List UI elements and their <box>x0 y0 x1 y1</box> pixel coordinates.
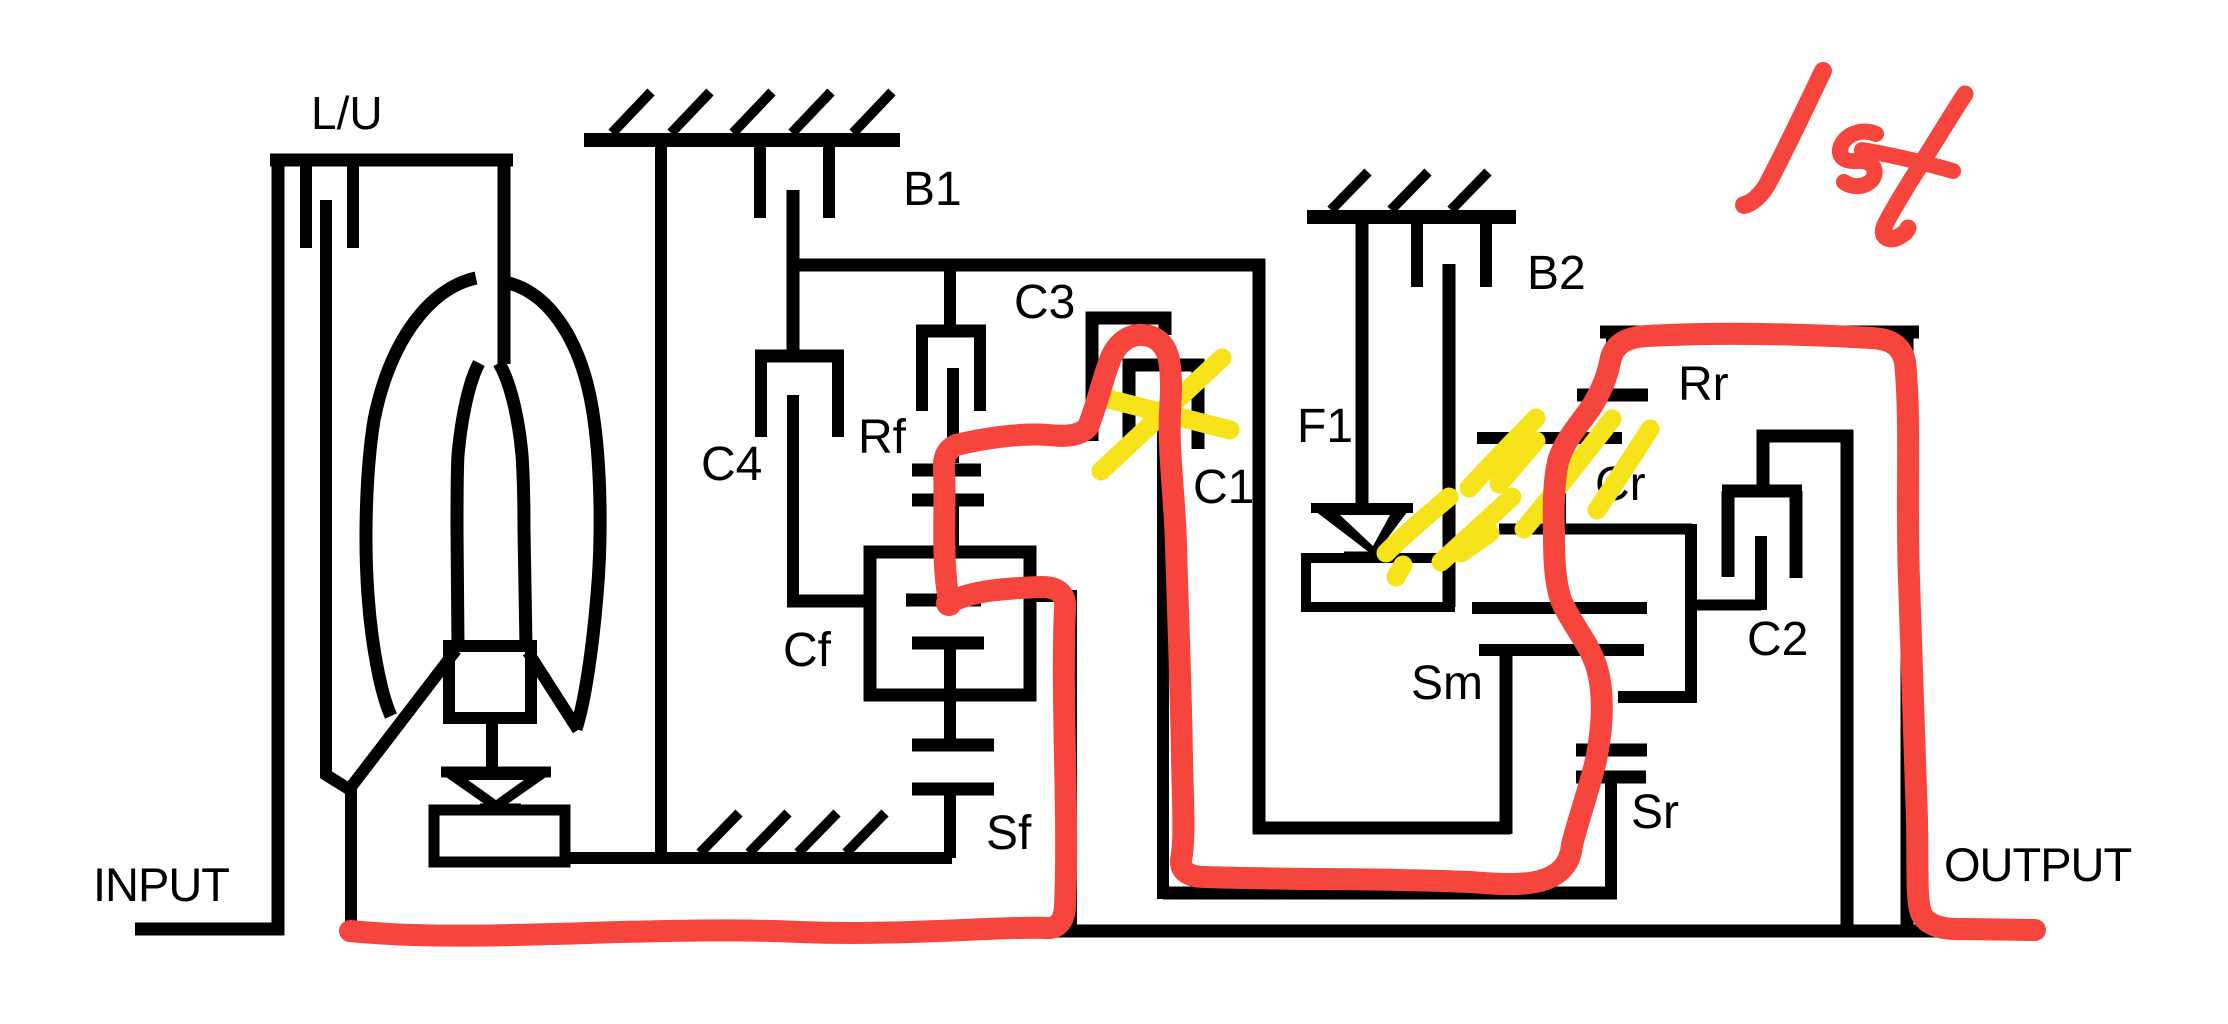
wire mid line to Sr <box>1163 887 1617 900</box>
node L/U label <box>311 87 383 139</box>
clutch L/U lock-up clutch <box>270 154 513 935</box>
wire Cr stub <box>1554 481 1566 534</box>
wire feed to C3 <box>944 265 956 331</box>
svg-text:OUTPUT: OUTPUT <box>1944 838 2132 891</box>
svg-text:C3: C3 <box>1014 276 1075 329</box>
wire C1 member down to rear sun <box>1157 402 1169 899</box>
svg-text:C1: C1 <box>1193 461 1254 514</box>
node Sf plates (front sun gear) <box>912 745 994 789</box>
node Sm plate <box>1479 644 1644 656</box>
yellow hatch marks over F1-Cr area <box>1386 418 1650 577</box>
wire shell right flare <box>528 652 578 730</box>
svg-text:Rf: Rf <box>858 411 907 464</box>
wire Rf to Cf box <box>947 500 959 558</box>
torque converter outer shell left arc <box>366 278 476 716</box>
wire pump shell left flare <box>351 650 456 787</box>
node C2 label <box>1747 613 1808 666</box>
wire Sf to ground line <box>944 789 956 858</box>
carrier Cf box <box>870 552 1030 695</box>
brake B1 rotating plate vertical <box>787 190 800 362</box>
wire Sm box bottom <box>1253 822 1510 835</box>
node Sr plates (rear sun gear) <box>1576 750 1647 777</box>
node Cf label <box>783 624 832 677</box>
torque converter turbine inner left arc <box>457 363 479 646</box>
brake B1 ground hatching <box>612 92 892 133</box>
svg-text:Sr: Sr <box>1631 786 1679 839</box>
wire Rr box right vertical to output <box>1901 332 1914 937</box>
svg-text:L/U: L/U <box>311 87 383 139</box>
svg-text:B2: B2 <box>1527 247 1586 300</box>
clutch C4 <box>755 356 844 607</box>
wire C2 inner stub <box>1755 536 1767 610</box>
ground hatching bottom center <box>700 813 885 853</box>
red path start blob in Cf <box>936 590 962 616</box>
svg-text:Rr: Rr <box>1678 358 1729 411</box>
brake B2 ground hatching <box>1331 172 1488 210</box>
wire junction line to C3 and planetary <box>787 259 1265 272</box>
wire C2 link to Cr drum <box>1691 600 1761 611</box>
svg-text:C4: C4 <box>701 438 762 491</box>
torque converter outer shell right arc <box>509 283 600 729</box>
red power-flow path bottom (input line to Cf) <box>350 334 2035 936</box>
brake B2 plate stub right <box>1480 217 1492 287</box>
node Rf label <box>858 411 907 464</box>
node Cr label <box>1595 458 1646 511</box>
clutch C2 outer bracket <box>1763 436 1853 491</box>
node OUTPUT label <box>1944 838 2132 891</box>
wire input shaft into converter <box>498 154 511 364</box>
one-way clutch F1 triangle <box>1311 508 1413 556</box>
node carrier plate (rear) <box>1472 602 1647 614</box>
brake B1 ground line <box>584 133 900 147</box>
clutch C2 inner bracket <box>1722 491 1802 578</box>
svg-text:Sf: Sf <box>986 807 1032 860</box>
node Rf plates (front ring gear) <box>912 470 984 500</box>
node Sf label <box>986 807 1032 860</box>
node C4 label <box>701 438 762 491</box>
one-way clutch (stator) triangle <box>441 772 551 812</box>
wire Rr box top <box>1600 326 1919 339</box>
wire Cf output link right <box>1024 590 1077 602</box>
svg-text:F1: F1 <box>1297 400 1353 453</box>
wire Cf to Sf <box>944 643 956 745</box>
carrier Cf inner plates <box>906 600 984 643</box>
red power-flow path main (Cf up, across C3, down C1, to Sr, up Cr, across Rr, down to OUTPUT) <box>944 334 2035 930</box>
clutch C3 <box>916 331 986 463</box>
wire turbine member vertical with jog <box>323 200 352 936</box>
wire Cr drum bracket <box>1499 524 1692 535</box>
node Sr label <box>1631 786 1679 839</box>
brake B2 plate stub left <box>1411 217 1423 287</box>
wire Sm box right vertical <box>1500 650 1513 834</box>
wire bottom output line <box>568 925 1937 938</box>
clutch C1 inner bracket <box>1129 365 1198 449</box>
node Rr label <box>1678 358 1729 411</box>
node C3 label <box>1014 276 1075 329</box>
node F1 label <box>1297 400 1353 453</box>
wire right feed vertical down to Sm box <box>1253 259 1266 834</box>
wire case left vertical from B1 line to bottom ground <box>655 140 667 858</box>
one-way clutch F1 base rectangle <box>1306 558 1450 607</box>
svg-text:INPUT: INPUT <box>93 858 229 911</box>
ground line bottom center <box>560 852 952 864</box>
svg-text:B1: B1 <box>903 163 962 216</box>
node INPUT label <box>93 858 229 911</box>
torque converter hub rectangle <box>449 646 531 718</box>
node Sm label <box>1411 657 1483 710</box>
svg-text:C2: C2 <box>1747 613 1808 666</box>
node B2 label <box>1527 247 1586 300</box>
red annotation 1st handwriting <box>1744 71 1965 239</box>
wire Rr box top-left stub <box>1606 332 1618 355</box>
svg-text:Sm: Sm <box>1411 657 1483 710</box>
node B1 label <box>903 163 962 216</box>
node Rr plate bar <box>1577 389 1648 402</box>
brake B1 plate stub right <box>823 140 835 218</box>
ground base rectangle under stator <box>434 810 565 862</box>
svg-text:Cf: Cf <box>783 624 832 677</box>
torque converter turbine inner right arc <box>499 363 526 646</box>
node Cr plate bar <box>1477 432 1622 444</box>
brake B2 ground line <box>1307 210 1516 224</box>
node C1 label <box>1193 461 1254 514</box>
yellow X over C1 <box>1101 358 1230 471</box>
wire B2 member to F1 <box>1356 217 1369 506</box>
wire stator shaft stem <box>486 718 498 775</box>
wire C2 drum vertical to output <box>1841 430 1854 931</box>
brake B1 plate stub left <box>754 140 766 218</box>
brake B2 rotating plate vertical <box>1443 264 1456 607</box>
wire front output vertical <box>1065 596 1077 931</box>
wire C4 to Cf link <box>787 595 876 608</box>
wire INPUT shaft line <box>135 923 284 936</box>
clutch C1 outer bracket <box>1092 318 1165 441</box>
wire Sr vertical <box>1605 777 1617 899</box>
